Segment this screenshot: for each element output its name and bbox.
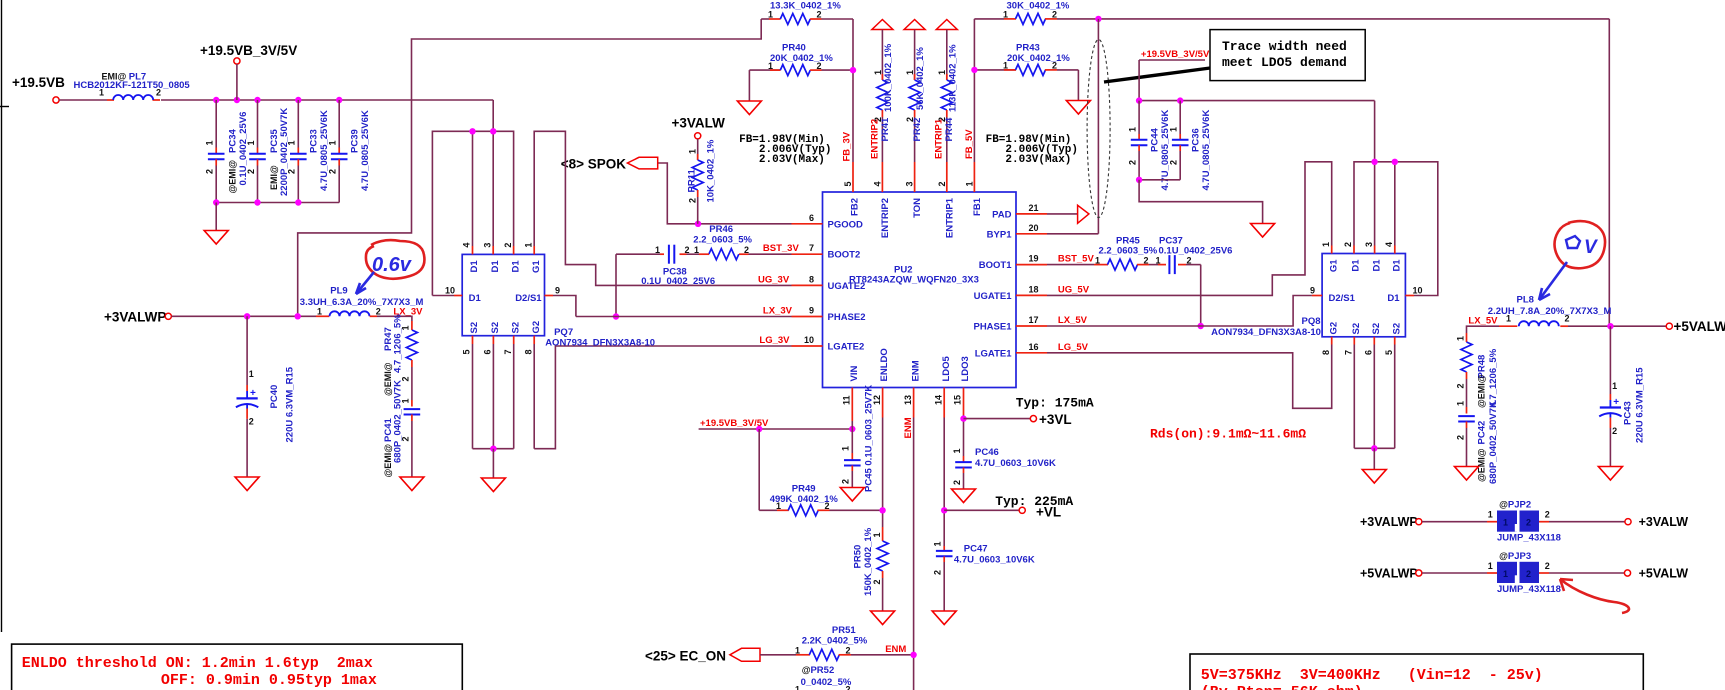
svg-text:30K_0402_1%: 30K_0402_1% xyxy=(1007,1,1070,12)
svg-text:ENLDO threshold ON: 1.2min 1.6: ENLDO threshold ON: 1.2min 1.6typ 2max xyxy=(22,655,373,672)
svg-text:15: 15 xyxy=(953,395,963,405)
svg-text:56K_0402_1%: 56K_0402_1% xyxy=(915,47,926,110)
svg-text:PC46: PC46 xyxy=(975,447,999,458)
svg-text:+3VALW: +3VALW xyxy=(1639,515,1689,529)
off-page arrow xyxy=(872,20,893,30)
svg-text:11: 11 xyxy=(842,395,852,405)
svg-text:1: 1 xyxy=(1321,242,1331,247)
svg-text:10: 10 xyxy=(1413,285,1423,295)
svg-text:@PJP3: @PJP3 xyxy=(1499,551,1531,562)
wire rail down to PQ7 drain xyxy=(492,100,494,246)
svg-text:+3VALWP: +3VALWP xyxy=(1360,515,1418,529)
svg-text:4.7U_0805_25V6K: 4.7U_0805_25V6K xyxy=(360,110,371,191)
resistor PR47 xyxy=(383,314,417,400)
svg-text:1: 1 xyxy=(1503,518,1508,528)
wire UG_5V xyxy=(1047,162,1332,296)
wire xyxy=(59,99,107,101)
svg-text:10K_0402_1%: 10K_0402_1% xyxy=(706,139,717,202)
svg-text:2.03V(Max): 2.03V(Max) xyxy=(1005,154,1071,166)
inductor PL9 xyxy=(300,286,424,318)
svg-text:1: 1 xyxy=(937,70,947,75)
svg-text:7: 7 xyxy=(503,349,513,354)
svg-text:2: 2 xyxy=(841,479,851,484)
svg-text:2: 2 xyxy=(846,646,851,656)
text FB spec right xyxy=(986,134,1078,166)
svg-text:1: 1 xyxy=(688,149,698,154)
node junctions on rail xyxy=(213,97,342,103)
svg-text:D1: D1 xyxy=(469,293,482,304)
wire BOOT2 cap to LX xyxy=(613,254,619,319)
svg-text:LGATE1: LGATE1 xyxy=(975,348,1012,359)
svg-text:FB2: FB2 xyxy=(850,198,861,216)
annotation red circle 0V xyxy=(1539,221,1605,300)
resistor 30K (FB1 top divider) xyxy=(974,1,1098,25)
svg-text:2: 2 xyxy=(937,181,947,186)
svg-text:2: 2 xyxy=(1127,160,1137,165)
sheet border xyxy=(0,0,9,632)
svg-text:+5VALWP: +5VALWP xyxy=(1674,319,1725,334)
wire LG_3V xyxy=(534,335,791,449)
svg-text:S2: S2 xyxy=(1391,323,1402,335)
wire BOOT2 xyxy=(749,253,792,255)
svg-text:RT8243AZQW_WQFN20_3X3: RT8243AZQW_WQFN20_3X3 xyxy=(849,275,979,286)
capacitor PC38 xyxy=(616,245,715,287)
svg-text:6: 6 xyxy=(1364,350,1374,355)
svg-text:2: 2 xyxy=(1526,569,1531,579)
resistor PR41 xyxy=(869,30,894,163)
note box switching frequency xyxy=(1190,654,1643,690)
resistor PR42 xyxy=(905,30,926,163)
terminal +3VALW xyxy=(672,116,726,139)
ground xyxy=(737,70,761,114)
svg-text:TON: TON xyxy=(912,198,923,218)
ground xyxy=(1362,470,1386,484)
resistor PR48 xyxy=(1456,333,1500,408)
node D1 rail of PQ8 xyxy=(1354,101,1438,296)
svg-text:499K_0402_1%: 499K_0402_1% xyxy=(770,494,839,505)
svg-text:ENM: ENM xyxy=(885,644,906,655)
svg-text:VIN: VIN xyxy=(849,366,860,382)
wire ENM vertical xyxy=(903,417,914,690)
svg-text:1: 1 xyxy=(1488,561,1493,571)
svg-text:4.7U_0603_10V6K: 4.7U_0603_10V6K xyxy=(954,555,1035,566)
svg-text:PGOOD: PGOOD xyxy=(828,219,864,230)
svg-text:2: 2 xyxy=(1343,242,1353,247)
svg-text:2: 2 xyxy=(503,243,513,248)
svg-text:3: 3 xyxy=(1364,242,1374,247)
capacitor PC43 (polarized) xyxy=(1599,326,1645,466)
svg-text:150K_0402_1%: 150K_0402_1% xyxy=(863,527,874,596)
svg-text:2: 2 xyxy=(1545,561,1550,571)
svg-text:JUMP_43X118: JUMP_43X118 xyxy=(1497,533,1561,544)
annotation red arrow xyxy=(1560,579,1629,613)
svg-text:UGATE2: UGATE2 xyxy=(828,281,866,292)
ground xyxy=(840,488,864,502)
svg-text:HCB2012KF-121T50_0805: HCB2012KF-121T50_0805 xyxy=(74,80,191,91)
svg-text:PC39: PC39 xyxy=(350,129,361,153)
svg-text:PC45 0.1U_0603_25V7K: PC45 0.1U_0603_25V7K xyxy=(864,385,875,492)
svg-text:LDO3: LDO3 xyxy=(960,356,971,381)
capacitor PC39 xyxy=(328,100,372,203)
off-page arrow PAD xyxy=(1047,205,1089,223)
wire PQ7 sources to ground xyxy=(473,344,514,478)
wire PQ7 gate G2 drop xyxy=(533,344,535,449)
svg-text:ENTRIP1: ENTRIP1 xyxy=(944,197,955,238)
svg-text:PC34: PC34 xyxy=(228,129,239,153)
svg-text:1: 1 xyxy=(523,243,533,248)
svg-text:2.2_0603_5%: 2.2_0603_5% xyxy=(1099,246,1158,257)
svg-text:5V=375KHz 3V=400KHz (Vin=12: 5V=375KHz 3V=400KHz (Vin=12 - 25v) xyxy=(1201,667,1543,684)
resistor PR51 xyxy=(760,625,917,660)
svg-text:G1: G1 xyxy=(1328,259,1339,272)
svg-text:LX_5V: LX_5V xyxy=(1058,315,1088,326)
wire ENLDO xyxy=(879,418,885,528)
wire FB_5V xyxy=(964,19,978,162)
svg-text:+5VALW: +5VALW xyxy=(1639,567,1689,581)
svg-text:2: 2 xyxy=(205,169,215,174)
wire caps to ground xyxy=(1136,177,1263,224)
IC PU2 RT8243AZQW_WQFN20_3X3 buck controller xyxy=(823,192,1017,388)
inductor PL8 xyxy=(1488,295,1666,330)
ground xyxy=(400,477,424,491)
svg-text:2: 2 xyxy=(685,245,690,255)
IC left pin stubs + numbers xyxy=(792,213,823,346)
svg-text:LX_3V: LX_3V xyxy=(763,306,793,317)
svg-text:D1: D1 xyxy=(490,260,501,273)
svg-text:FB_3V: FB_3V xyxy=(842,131,853,161)
svg-text:PR11: PR11 xyxy=(687,169,698,193)
svg-text:G2: G2 xyxy=(1328,322,1339,335)
svg-text:D1: D1 xyxy=(510,260,521,273)
svg-text:1: 1 xyxy=(1156,255,1161,265)
svg-text:19: 19 xyxy=(1029,254,1039,264)
svg-text:9: 9 xyxy=(555,285,560,295)
inductor PL7 xyxy=(74,72,191,101)
resistor 13.3K (FB2 top divider) xyxy=(761,1,853,25)
IC top pin stubs + numbers xyxy=(843,162,974,192)
svg-text:meet LDO5 demand: meet LDO5 demand xyxy=(1222,55,1347,70)
capacitor PC44 xyxy=(1127,101,1171,191)
wire rail xyxy=(1136,97,1375,103)
svg-text:5: 5 xyxy=(462,349,472,354)
svg-text:1: 1 xyxy=(905,70,915,75)
svg-text:@EMI@: @EMI@ xyxy=(1477,448,1487,482)
svg-text:20: 20 xyxy=(1029,223,1039,233)
resistor PR44 xyxy=(934,30,959,163)
svg-text:+19.5VB_3V/5V: +19.5VB_3V/5V xyxy=(200,43,297,58)
svg-text:1: 1 xyxy=(1488,510,1493,520)
svg-text:6: 6 xyxy=(483,349,493,354)
svg-text:8: 8 xyxy=(523,349,533,354)
svg-text:PR41: PR41 xyxy=(880,117,891,141)
svg-text:PC42: PC42 xyxy=(1477,421,1488,445)
svg-text:@EMI@: @EMI@ xyxy=(383,362,393,396)
svg-text:AON7934_DFN3X3A8-10: AON7934_DFN3X3A8-10 xyxy=(1211,327,1321,338)
text FB spec left xyxy=(739,134,831,166)
svg-text:G1: G1 xyxy=(531,260,542,273)
svg-text:4: 4 xyxy=(872,181,882,186)
svg-text:PR49: PR49 xyxy=(792,484,816,495)
svg-text:2: 2 xyxy=(846,685,851,690)
svg-text:UG_5V: UG_5V xyxy=(1058,284,1090,295)
terminal +5VALWP xyxy=(1666,319,1725,334)
capacitor PC40 (polarized) xyxy=(236,316,296,477)
svg-text:6: 6 xyxy=(809,213,814,223)
svg-text:220U 6.3VM_R15: 220U 6.3VM_R15 xyxy=(285,366,296,442)
svg-text:1: 1 xyxy=(1169,127,1179,132)
net +19.5VB_3V/5V to VIN xyxy=(699,418,856,432)
svg-text:PL8: PL8 xyxy=(1517,295,1534,306)
svg-text:1: 1 xyxy=(205,140,215,145)
off-page arrow EC_ON xyxy=(645,648,760,663)
capacitor PC47 xyxy=(933,541,1035,611)
ground xyxy=(1598,467,1622,481)
svg-text:G2: G2 xyxy=(531,321,542,334)
svg-text:+3VALW: +3VALW xyxy=(672,116,726,131)
svg-text:PL9: PL9 xyxy=(330,286,347,297)
svg-text:113K_0402_1%: 113K_0402_1% xyxy=(947,44,958,112)
svg-text:4: 4 xyxy=(462,243,472,248)
svg-text:4.7_1206_5%: 4.7_1206_5% xyxy=(1488,348,1499,407)
svg-text:ENM: ENM xyxy=(910,360,921,381)
wire UG_3V xyxy=(534,131,791,285)
svg-text:21: 21 xyxy=(1029,203,1039,213)
capacitor PC46 xyxy=(952,447,1056,489)
svg-text:+: + xyxy=(1613,397,1619,408)
svg-text:13: 13 xyxy=(903,395,913,405)
svg-text:PC36: PC36 xyxy=(1191,128,1202,152)
ground xyxy=(235,477,259,491)
svg-text:Rds(on):9.1mΩ~11.6mΩ: Rds(on):9.1mΩ~11.6mΩ xyxy=(1150,427,1306,442)
svg-text:2.2_0603_5%: 2.2_0603_5% xyxy=(693,235,752,246)
resistor PR52 (below, cut off) xyxy=(795,665,852,690)
svg-text:2: 2 xyxy=(688,198,698,203)
svg-text:2: 2 xyxy=(1612,426,1617,436)
resistor PR40 xyxy=(749,43,853,76)
capacitor PC35 xyxy=(246,100,290,203)
svg-text:Trace width need: Trace width need xyxy=(1222,39,1347,54)
svg-text:PR50: PR50 xyxy=(853,545,864,569)
capacitor PC45 xyxy=(841,385,875,492)
terminal +VL xyxy=(995,494,1073,520)
svg-text:1: 1 xyxy=(952,448,962,453)
ground xyxy=(952,489,976,503)
wire +19.5VB rail xyxy=(161,99,493,101)
svg-text:220U 6.3VM_R15: 220U 6.3VM_R15 xyxy=(1635,367,1646,443)
svg-text:0.1U_0402_25V6: 0.1U_0402_25V6 xyxy=(1159,246,1233,257)
svg-text:@EMI@: @EMI@ xyxy=(228,160,238,194)
svg-text:8: 8 xyxy=(809,274,814,284)
wire LG_5V xyxy=(1047,342,1332,409)
svg-text:2: 2 xyxy=(246,169,256,174)
capacitor PC34 xyxy=(205,100,250,203)
wire LX node to snubber xyxy=(377,316,412,321)
svg-text:+19.5VB: +19.5VB xyxy=(12,75,65,90)
svg-text:D1: D1 xyxy=(1387,293,1400,304)
svg-text:@PR52: @PR52 xyxy=(802,665,835,676)
svg-text:OFF: 0.9min 0.95typ 1max: OFF: 0.9min 0.95typ 1max xyxy=(161,672,377,689)
svg-text:2: 2 xyxy=(1456,435,1466,440)
svg-text:3: 3 xyxy=(482,243,492,248)
dashed ellipse annotation xyxy=(1087,40,1110,218)
ground xyxy=(481,478,505,492)
svg-text:4: 4 xyxy=(1384,242,1394,247)
svg-text:2: 2 xyxy=(328,169,338,174)
wire PL8 to snubber xyxy=(1467,326,1500,333)
svg-text:2: 2 xyxy=(1187,255,1192,265)
svg-text:D1: D1 xyxy=(1371,259,1382,272)
IC right pin stubs + numbers xyxy=(1016,203,1047,353)
svg-text:2: 2 xyxy=(249,417,254,427)
resistor PR50 xyxy=(853,527,889,611)
svg-text:D2/S1: D2/S1 xyxy=(1329,293,1356,304)
svg-text:1: 1 xyxy=(1127,127,1137,132)
wire BOOT1 xyxy=(1047,264,1094,266)
svg-text:BYP1: BYP1 xyxy=(987,229,1013,240)
svg-text:2: 2 xyxy=(1545,510,1550,520)
terminal +3VALWP xyxy=(104,310,171,325)
svg-text:1: 1 xyxy=(249,369,254,379)
svg-text:2: 2 xyxy=(933,570,943,575)
svg-text:EMI@: EMI@ xyxy=(269,165,279,190)
svg-text:1: 1 xyxy=(795,646,800,656)
wire xyxy=(172,313,317,319)
wire LDO3 xyxy=(960,415,1030,456)
transistor PQ8 AON7934_DFN3X3A8-10 xyxy=(1211,242,1422,355)
svg-text:BST_3V: BST_3V xyxy=(763,243,800,254)
capacitor PC37 xyxy=(1156,236,1233,275)
svg-text:PR43: PR43 xyxy=(1016,43,1040,54)
svg-text:PC33: PC33 xyxy=(309,129,320,153)
svg-text:PC47: PC47 xyxy=(964,544,988,555)
svg-text:ENTRIP2: ENTRIP2 xyxy=(869,119,880,159)
ground xyxy=(871,611,895,625)
svg-text:2: 2 xyxy=(952,480,962,485)
svg-text:LG_3V: LG_3V xyxy=(759,335,790,346)
svg-text:2: 2 xyxy=(1456,383,1466,388)
svg-text:D1: D1 xyxy=(1351,259,1362,272)
svg-text:D1: D1 xyxy=(469,260,480,273)
callout box "Trace width need meet LDO5 demand" xyxy=(1210,30,1365,81)
svg-text:<8> SPOK: <8> SPOK xyxy=(561,156,627,171)
svg-text:2.03V(Max): 2.03V(Max) xyxy=(759,154,825,166)
svg-text:@EMI@: @EMI@ xyxy=(1477,374,1487,408)
resistor PR11 xyxy=(687,139,717,224)
wire VIN xyxy=(851,421,853,453)
svg-text:16: 16 xyxy=(1029,342,1039,352)
svg-text:FB_5V: FB_5V xyxy=(964,129,975,159)
svg-text:1: 1 xyxy=(1456,401,1466,406)
svg-text:1: 1 xyxy=(933,541,943,546)
svg-text:2: 2 xyxy=(1144,255,1149,265)
svg-text:17: 17 xyxy=(1029,315,1039,325)
svg-text:9: 9 xyxy=(1310,285,1315,295)
svg-text:1: 1 xyxy=(1503,569,1508,579)
svg-text:AON7934_DFN3X3A8-10: AON7934_DFN3X3A8-10 xyxy=(545,337,655,348)
svg-text:BST_5V: BST_5V xyxy=(1058,254,1095,265)
svg-text:10: 10 xyxy=(804,335,814,345)
svg-text:LGATE2: LGATE2 xyxy=(828,342,865,353)
svg-text:<25> EC_ON: <25> EC_ON xyxy=(645,648,726,663)
svg-text:S2: S2 xyxy=(1351,323,1362,335)
svg-text:PR46: PR46 xyxy=(709,224,733,235)
note box ENLDO threshold xyxy=(12,644,463,690)
svg-text:1: 1 xyxy=(1456,336,1466,341)
svg-text:PR40: PR40 xyxy=(782,43,806,54)
svg-text:V: V xyxy=(1584,237,1598,258)
svg-text:LDO5: LDO5 xyxy=(941,355,952,381)
svg-text:0_0402_5%: 0_0402_5% xyxy=(801,677,852,688)
svg-text:7: 7 xyxy=(809,243,814,253)
svg-text:S2: S2 xyxy=(490,322,501,334)
svg-text:Typ: 225mA: Typ: 225mA xyxy=(995,494,1073,509)
wire cap bottom rail xyxy=(216,202,339,204)
off-page arrow SPOK xyxy=(561,156,658,171)
svg-text:2.2K_0402_5%: 2.2K_0402_5% xyxy=(802,636,868,647)
terminal +19.5VB xyxy=(12,75,65,103)
capacitor PC42 xyxy=(1456,401,1500,484)
svg-text:2200P_0402_50V7K: 2200P_0402_50V7K xyxy=(279,108,290,196)
svg-text:5: 5 xyxy=(1384,350,1394,355)
svg-text:LG_5V: LG_5V xyxy=(1058,342,1089,353)
svg-text:Typ: 175mA: Typ: 175mA xyxy=(1016,396,1094,411)
svg-text:1: 1 xyxy=(328,140,338,145)
svg-text:13.3K_0402_1%: 13.3K_0402_1% xyxy=(770,1,841,12)
svg-text:+: + xyxy=(250,388,256,399)
svg-text:2.2UH_7.8A_20%_7X7X3_M: 2.2UH_7.8A_20%_7X7X3_M xyxy=(1488,306,1612,317)
svg-text:D2/S1: D2/S1 xyxy=(515,293,542,304)
svg-text:+5VALWP: +5VALWP xyxy=(1360,567,1418,581)
svg-text:1: 1 xyxy=(873,70,883,75)
wire LDO5 xyxy=(941,418,1019,547)
svg-text:10: 10 xyxy=(445,285,455,295)
ground xyxy=(204,203,228,245)
svg-text:14: 14 xyxy=(933,395,943,405)
svg-text:PR51: PR51 xyxy=(832,625,856,636)
svg-text:PC44: PC44 xyxy=(1150,128,1161,152)
svg-text:@EMI@: @EMI@ xyxy=(383,444,393,478)
wire PQ8 sources to ground xyxy=(1354,345,1394,470)
svg-text:7: 7 xyxy=(1344,350,1354,355)
resistor PR45 xyxy=(1094,236,1158,271)
jumper PJP3 xyxy=(1360,551,1688,595)
svg-text:(By Rton= 56K ohm): (By Rton= 56K ohm) xyxy=(1201,684,1363,690)
svg-text:1: 1 xyxy=(694,245,699,255)
node D1 rail of PQ7 xyxy=(432,128,513,295)
capacitor PC33 xyxy=(287,100,330,203)
wire BYP1 net xyxy=(1047,16,1609,327)
jumper PJP2 xyxy=(1360,500,1688,544)
net label +19.5VB_3V/5V xyxy=(1139,49,1210,101)
svg-text:100K_0402_1%: 100K_0402_1% xyxy=(883,43,894,112)
wire FB_3V xyxy=(842,19,857,162)
resistor PR49 xyxy=(759,429,882,516)
wire +3VALWP feedback sense xyxy=(298,19,762,316)
svg-text:2: 2 xyxy=(744,245,749,255)
svg-text:UGATE1: UGATE1 xyxy=(974,291,1013,302)
svg-text:PAD: PAD xyxy=(992,209,1011,220)
svg-text:4.7U_0603_10V6K: 4.7U_0603_10V6K xyxy=(975,458,1056,469)
svg-text:20K_0402_1%: 20K_0402_1% xyxy=(770,53,833,64)
svg-text:4.7U_0805_25V6K: 4.7U_0805_25V6K xyxy=(319,110,330,191)
svg-text:@PJP2: @PJP2 xyxy=(1499,500,1531,511)
ground xyxy=(1251,224,1275,238)
terminal +19.5VB_3V/5V xyxy=(200,43,297,100)
svg-text:ENTRIP2: ENTRIP2 xyxy=(880,198,891,238)
svg-text:PR44: PR44 xyxy=(944,117,955,141)
svg-text:PQ8: PQ8 xyxy=(1301,316,1320,327)
svg-text:D1: D1 xyxy=(1392,259,1403,272)
